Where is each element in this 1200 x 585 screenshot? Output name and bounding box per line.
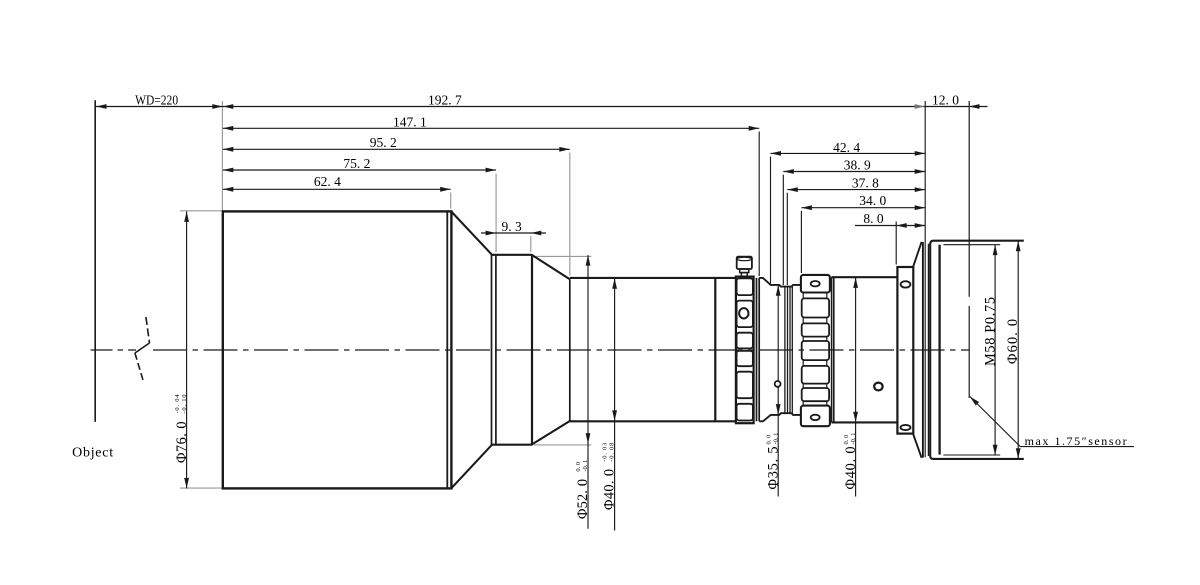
dim M58 <box>994 245 996 456</box>
phi52 section <box>492 255 532 445</box>
ring joint line <box>714 278 716 421</box>
dim phi52 <box>587 255 589 529</box>
rear group rings <box>922 242 924 458</box>
label M58 <box>982 297 998 366</box>
dim 95.2 <box>223 148 570 150</box>
svg-text:9. 3: 9. 3 <box>502 219 523 234</box>
dim 34.0 <box>801 207 925 209</box>
extension lines phi52 <box>534 255 591 257</box>
svg-text:Φ60. 0: Φ60. 0 <box>1005 319 1021 364</box>
break symbol <box>135 317 150 381</box>
extension lines phi76 <box>180 210 222 212</box>
extension line 75.2 / 9.3 left <box>495 174 497 253</box>
flange plate oval holes <box>901 281 911 287</box>
object plane line <box>94 100 96 422</box>
dim phi76 <box>186 211 188 488</box>
extension line flange face / 12.0 left <box>924 101 926 457</box>
rear phi40 barrel <box>832 277 898 422</box>
centerline <box>91 349 970 351</box>
extension line 38.9 <box>782 175 784 285</box>
dim 75.2 <box>223 169 496 171</box>
svg-text:Φ52. 0: Φ52. 0 <box>575 479 591 519</box>
dim 42.4 <box>771 152 926 154</box>
ring end lines <box>756 278 758 421</box>
label phi52 <box>575 460 591 519</box>
shoulder to phi35.5 and thread relief <box>759 278 801 287</box>
dim 9.3 <box>481 232 546 234</box>
svg-text:0. 0: 0. 0 <box>575 462 582 472</box>
dim 38.9 <box>783 171 925 173</box>
taper phi52 to phi40 <box>532 255 570 444</box>
svg-text:62. 4: 62. 4 <box>314 174 341 189</box>
svg-text:95. 2: 95. 2 <box>370 135 397 150</box>
lock ring with flanges <box>801 275 830 426</box>
thread lines <box>785 287 792 414</box>
hole in front ring <box>739 308 748 318</box>
label phi35.5 <box>765 433 781 490</box>
svg-text:-0. 03: -0. 03 <box>602 443 609 462</box>
label phi60 <box>1005 319 1021 364</box>
dim phi40 front <box>614 278 616 530</box>
dim 8.0 <box>855 225 925 227</box>
label phi76 <box>174 394 190 463</box>
svg-text:37. 8: 37. 8 <box>852 175 879 190</box>
svg-text:max 1.75″sensor: max 1.75″sensor <box>1025 434 1127 448</box>
extension line 37.8 <box>786 193 788 285</box>
extension line 8.0 <box>895 222 897 265</box>
svg-text:Φ76. 0: Φ76. 0 <box>174 422 190 464</box>
extension line 9.3 right <box>530 236 532 252</box>
svg-text:Φ35. 5: Φ35. 5 <box>765 447 781 490</box>
chamfer diagonals <box>913 242 921 458</box>
phi40 front barrel <box>570 278 736 421</box>
svg-text:75. 2: 75. 2 <box>343 156 370 171</box>
svg-text:8. 0: 8. 0 <box>863 211 884 226</box>
extension line 42.4 <box>770 157 772 284</box>
dim phi35.5 <box>777 285 779 496</box>
M58 thread minor lines <box>943 245 1000 455</box>
svg-text:-0. 08: -0. 08 <box>609 443 616 462</box>
hole on thread section <box>775 381 781 387</box>
dim row WD=220 + 192.7 + 12.0 <box>96 106 988 108</box>
extension line 147.1 <box>758 132 760 277</box>
flange plate <box>897 267 913 434</box>
lock ring oval holes <box>811 281 820 286</box>
svg-text:M58 P0.75: M58 P0.75 <box>982 297 998 366</box>
set screw knob <box>737 257 752 277</box>
dim 62.4 <box>223 188 451 190</box>
label phi40front <box>602 443 618 510</box>
svg-text:-0. 04: -0. 04 <box>174 394 181 414</box>
extension line 34.0 <box>800 211 802 273</box>
svg-text:WD=220: WD=220 <box>135 94 178 109</box>
svg-text:-0. 1: -0. 1 <box>850 433 857 445</box>
svg-text:-0. 1: -0. 1 <box>772 433 779 445</box>
svg-text:0. 0: 0. 0 <box>765 435 772 445</box>
svg-text:0. 0: 0. 0 <box>843 435 850 445</box>
svg-text:Φ40. 0: Φ40. 0 <box>843 447 859 490</box>
svg-text:12. 0: 12. 0 <box>932 92 959 107</box>
M58 barrel outline <box>930 241 1024 459</box>
front barrel phi76 <box>223 211 452 488</box>
extension line 95.2 <box>569 153 571 276</box>
svg-text:192. 7: 192. 7 <box>428 92 462 107</box>
svg-text:147. 1: 147. 1 <box>393 114 427 129</box>
dim 37.8 <box>787 189 925 191</box>
svg-text:34. 0: 34. 0 <box>859 193 886 208</box>
dim phi60 <box>1017 241 1019 459</box>
extension line 62.4 <box>450 192 452 208</box>
extension line front face <box>221 101 223 211</box>
label phi40rear <box>843 433 859 490</box>
svg-text:38. 9: 38. 9 <box>844 158 871 173</box>
dim 147.1 <box>223 127 759 129</box>
svg-text:Φ40. 0: Φ40. 0 <box>602 469 618 510</box>
hole on rear barrel <box>874 383 882 391</box>
taper phi76 to phi52 <box>451 212 492 489</box>
svg-text:42. 4: 42. 4 <box>833 140 860 155</box>
sensor leader <box>970 397 1134 447</box>
sensor plane line / 12.0 right <box>968 101 970 297</box>
dim phi40 rear <box>855 277 857 496</box>
svg-text:-0. 1: -0. 1 <box>582 460 589 472</box>
svg-text:-0. 10: -0. 10 <box>181 395 188 414</box>
front knurled ring <box>736 277 754 424</box>
svg-text:Object: Object <box>72 445 113 460</box>
